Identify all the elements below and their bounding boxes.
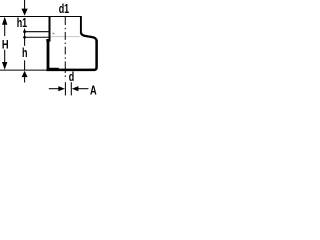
svg-text:h: h <box>22 47 28 61</box>
dot at L2 on dimension line <box>23 30 26 33</box>
dot at L3 on dimension line <box>23 36 26 39</box>
left reference line L2 (h1 level) <box>25 31 49 33</box>
faint inner shoulder line <box>51 36 80 38</box>
svg-text:d1: d1 <box>59 2 69 16</box>
fitting left step notch <box>46 39 50 42</box>
up arrowhead at top <box>2 17 7 25</box>
fitting bottom edge and lower right edge with rounded corner <box>47 40 97 70</box>
svg-text:H: H <box>2 38 9 51</box>
svg-text:h1: h1 <box>17 17 27 31</box>
svg-text:A: A <box>90 84 97 98</box>
A dimension: extension line right <box>70 82 72 95</box>
h1 / h dimension line (x=24.6) <box>22 0 28 83</box>
up arrowhead below bottom line <box>22 71 28 77</box>
fitting right edge upper <box>80 16 82 33</box>
fitting left edge upper <box>49 16 51 40</box>
svg-text:d: d <box>69 71 75 85</box>
fitting bottom edge inner thicker part <box>47 67 59 69</box>
down arrowhead at bottom <box>2 62 7 70</box>
top reference line + fitting top edge (d1 level) <box>0 16 82 18</box>
A dimension: right arrow (points left) <box>72 86 79 91</box>
centerline (dash-dot) <box>64 17 66 77</box>
A dimension: extension line at centerline <box>64 82 66 95</box>
fitting right flange step <box>81 33 97 41</box>
fitting left edge lower <box>47 41 50 70</box>
small inner mark near left edge <box>53 33 55 35</box>
bottom reference line <box>0 69 47 71</box>
down arrowhead above top line <box>22 9 28 16</box>
left reference line L3 (h level) <box>25 36 49 38</box>
H dimension line (x=4.7) <box>2 17 7 70</box>
A dimension: left arrow (points right) <box>49 88 59 90</box>
